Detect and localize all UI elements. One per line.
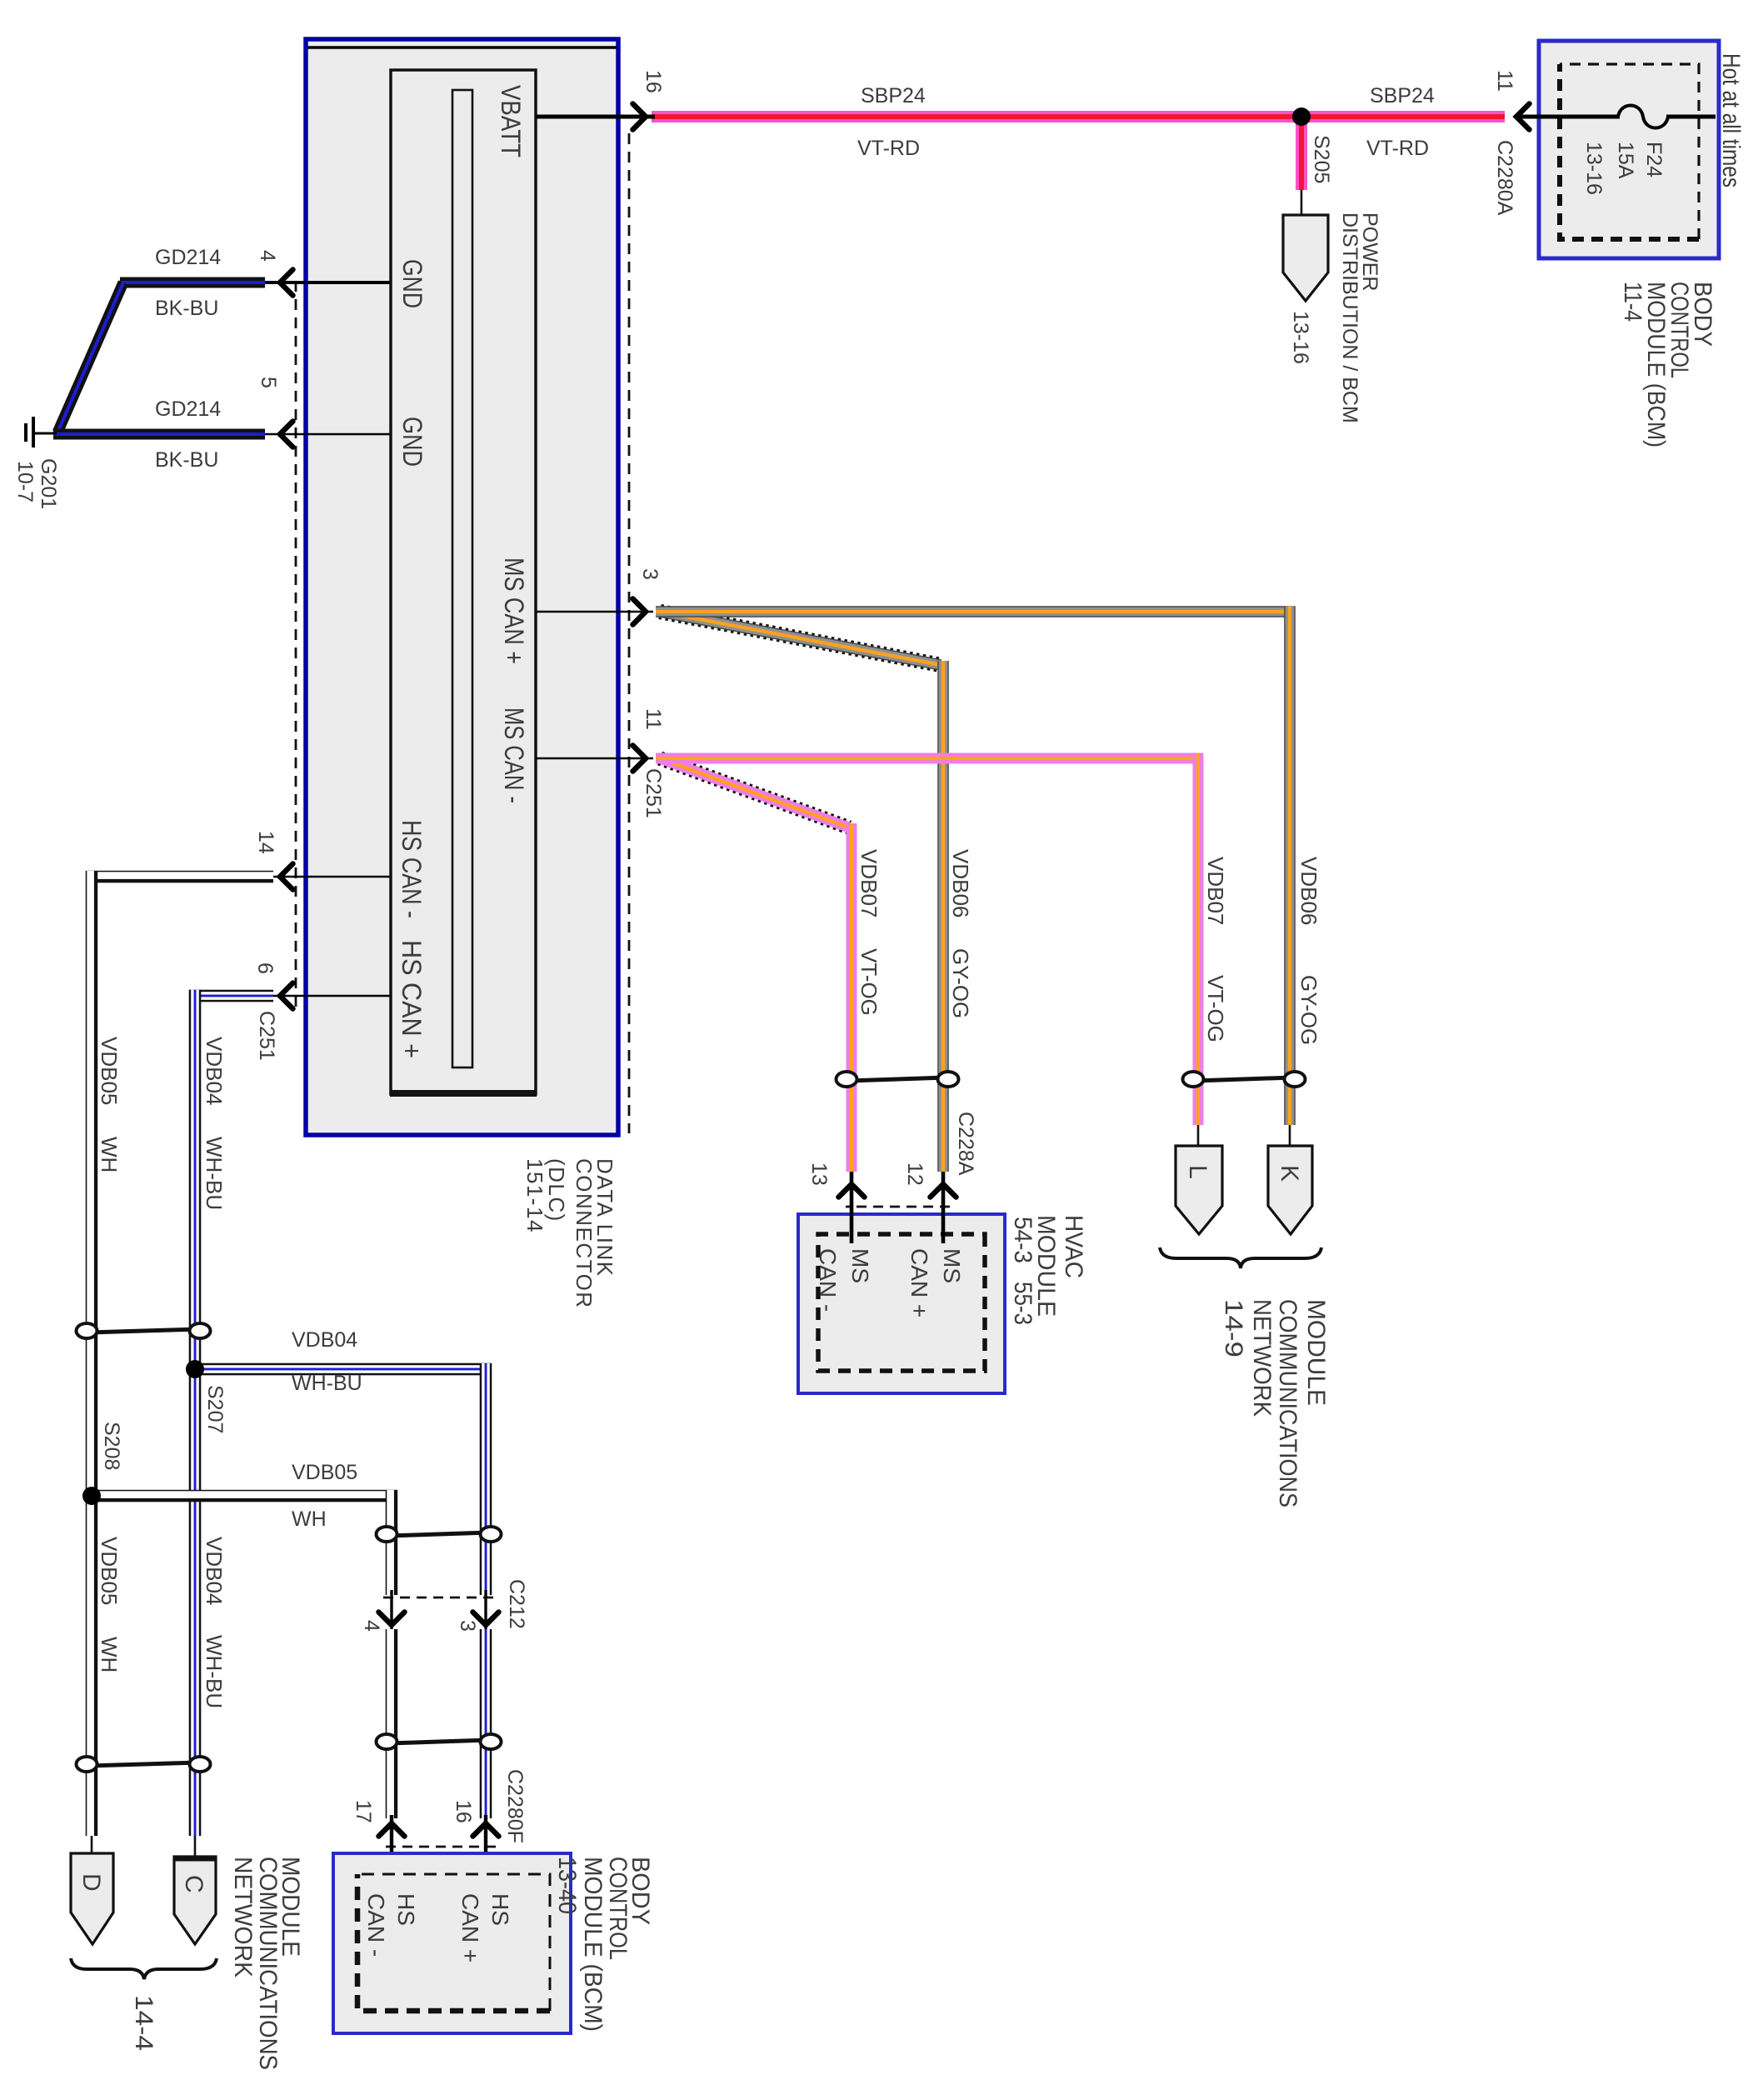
svg-text:13-16: 13-16	[1289, 311, 1312, 364]
svg-text:VBATT: VBATT	[496, 85, 526, 157]
svg-text:VDB04: VDB04	[202, 1537, 227, 1605]
svg-text:151-14: 151-14	[522, 1158, 547, 1233]
svg-text:DISTRIBUTION / BCM: DISTRIBUTION / BCM	[1338, 212, 1361, 423]
pin HS CAN + stub wire	[273, 995, 390, 997]
svg-text:13: 13	[807, 1162, 831, 1186]
svg-text:6: 6	[253, 962, 277, 974]
svg-text:C: C	[180, 1875, 207, 1893]
svg-text:16: 16	[452, 1800, 475, 1823]
svg-text:CONTROL: CONTROL	[604, 1857, 632, 1960]
svg-text:WH: WH	[292, 1507, 327, 1531]
module box: HVAC MODULE 54-3 55-3	[798, 1214, 1005, 1393]
svg-text:11-4: 11-4	[1619, 282, 1646, 322]
connector L off-page	[1197, 1125, 1200, 1147]
svg-text:MODULE: MODULE	[1302, 1299, 1330, 1406]
svg-text:55-3: 55-3	[1009, 1282, 1036, 1325]
svg-text:GD214: GD214	[155, 397, 221, 421]
svg-text:S208: S208	[100, 1422, 123, 1470]
pin 14 arrow at DLC	[280, 864, 293, 890]
twisted pair symbol on HVAC drop pair	[848, 1077, 946, 1081]
svg-text:17: 17	[352, 1800, 375, 1823]
svg-text:MS CAN +: MS CAN +	[499, 557, 529, 664]
svg-text:HVAC: HVAC	[1060, 1215, 1087, 1278]
svg-text:C251: C251	[255, 1011, 278, 1061]
wire: VDB05 WH from C212 to C2280F pin 17	[386, 1629, 398, 1818]
pin 11 arrow at DLC	[633, 746, 647, 772]
svg-text:GD214: GD214	[155, 246, 221, 269]
wire: VDB07 VT-OG horizontal run to HVAC pin 13	[847, 823, 857, 1172]
svg-text:VDB05: VDB05	[97, 1537, 122, 1605]
off-page connector: POWER DISTRIBUTION / BCM 13-16	[1283, 215, 1328, 301]
svg-text:NETWORK: NETWORK	[229, 1857, 257, 1977]
svg-text:SBP24: SBP24	[861, 84, 926, 107]
DLC connector body rectangle	[391, 70, 536, 1094]
svg-text:C228A: C228A	[954, 1112, 977, 1176]
svg-text:CAN +: CAN +	[457, 1893, 483, 1962]
svg-text:GND: GND	[397, 417, 427, 467]
svg-text:VDB05: VDB05	[292, 1461, 357, 1484]
svg-text:GND: GND	[397, 259, 427, 308]
svg-text:NETWORK: NETWORK	[1248, 1299, 1276, 1417]
pin 3 arrow at DLC	[633, 599, 647, 625]
svg-text:K: K	[1276, 1165, 1303, 1182]
dashed connector face line at DLC bottom side	[295, 281, 297, 1012]
svg-text:HS CAN +: HS CAN +	[397, 940, 427, 1058]
svg-text:15A: 15A	[1614, 142, 1637, 179]
svg-text:14-4: 14-4	[130, 1995, 157, 2051]
svg-text:54-3: 54-3	[1009, 1217, 1036, 1263]
node S205 splice on SBP24 wire	[1292, 107, 1311, 126]
svg-text:COMMUNICATIONS: COMMUNICATIONS	[254, 1857, 282, 2070]
wire: VDB06 GY-OG diagonal from pin 3 to HVAC branch	[660, 612, 941, 665]
pin 4 arrow at DLC	[280, 270, 293, 296]
svg-text:WH-BU: WH-BU	[202, 1635, 227, 1708]
in-line connector C212	[382, 1597, 493, 1599]
svg-text:WH: WH	[97, 1637, 122, 1672]
twisted pair symbol between C212 and C2280F	[388, 1740, 489, 1743]
connector K off-page	[1289, 1125, 1291, 1147]
wire: VDB07 VT-OG from pin 11 up and right to connector L	[656, 753, 1198, 764]
svg-text:F24: F24	[1642, 142, 1666, 177]
svg-text:GY-OG: GY-OG	[1296, 975, 1321, 1045]
svg-text:G201: G201	[37, 458, 60, 509]
fuse F24 15A inside BCM	[1666, 115, 1716, 119]
twisted pair symbol on HS CAN pair before splices	[88, 1329, 198, 1332]
module box: DATA LINK CONNECTOR (DLC) 151-14	[306, 39, 618, 1135]
dashed internal boundary of BCM 13-40	[357, 1874, 550, 2011]
twisted pair symbol on HS CAN pair near connectors D and C	[88, 1762, 198, 1766]
pin MS CAN + stub wire	[536, 611, 653, 612]
svg-text:WH-BU: WH-BU	[292, 1372, 362, 1395]
svg-text:C251: C251	[642, 768, 665, 818]
node S207 splice on VDB04	[186, 1360, 204, 1378]
ground G201	[35, 432, 57, 435]
wire: SBP24 VT-RD branch from S205 to power distribution arrow	[1296, 122, 1307, 190]
svg-text:HS: HS	[487, 1893, 513, 1926]
svg-text:C2280A: C2280A	[1493, 140, 1516, 216]
pin 16 arrow at DLC	[633, 104, 647, 130]
svg-text:11: 11	[1493, 70, 1516, 92]
connector D off-page	[91, 1836, 93, 1857]
svg-text:BK-BU: BK-BU	[155, 448, 218, 472]
dashed internal boundary of HVAC module	[818, 1234, 985, 1371]
wire: GD214 BK-BU from DLC pin 5 to ground	[53, 429, 265, 440]
wire: VDB06 GY-OG horizontal run to HVAC pin 12	[937, 661, 949, 1172]
svg-text:5: 5	[257, 377, 280, 388]
dashed connector face line at HVAC C228A	[846, 1206, 950, 1208]
svg-text:4: 4	[360, 1620, 383, 1632]
svg-text:VT-OG: VT-OG	[857, 948, 881, 1016]
pin MS CAN - stub wire	[536, 757, 653, 759]
svg-text:VDB05: VDB05	[97, 1037, 122, 1105]
svg-text:14-9: 14-9	[1220, 1299, 1247, 1357]
wire: VDB05 WH from DLC pin 14 down and right to connector D	[86, 871, 273, 883]
svg-text:MS CAN -: MS CAN -	[499, 707, 529, 803]
svg-text:CONNECTOR: CONNECTOR	[572, 1158, 597, 1309]
svg-text:D: D	[77, 1873, 105, 1892]
pin 13 stub at HVAC	[850, 1172, 854, 1243]
pin VBATT stub wire	[536, 115, 655, 119]
svg-text:HS: HS	[393, 1893, 419, 1926]
svg-text:CAN +: CAN +	[906, 1248, 932, 1317]
pin 12 stub at HVAC	[941, 1172, 946, 1243]
DLC connector key slot	[452, 90, 472, 1067]
svg-text:MS: MS	[847, 1248, 873, 1283]
module box: BODY CONTROL MODULE (BCM) 11-4	[1539, 41, 1719, 258]
svg-text:13-40: 13-40	[553, 1857, 581, 1914]
node S208 splice on VDB05	[82, 1487, 101, 1505]
dashed internal boundary of BCM	[1560, 64, 1699, 239]
wire: VDB06 GY-OG from pin 3 up and right to connector K	[656, 606, 1290, 617]
svg-text:VDB06: VDB06	[1296, 857, 1321, 925]
pin 6 arrow at DLC	[280, 983, 293, 1009]
svg-text:VDB07: VDB07	[1203, 857, 1228, 925]
pin 13 arrow at HVAC	[839, 1184, 865, 1197]
svg-text:C2280F: C2280F	[503, 1769, 527, 1843]
connector C off-page	[194, 1836, 197, 1858]
wire: VDB04 WH-BU from DLC pin 6 down and right to connector C	[189, 990, 273, 1002]
svg-text:L: L	[1184, 1165, 1211, 1179]
svg-text:CAN -: CAN -	[815, 1248, 841, 1312]
in-line connector C2280F at BCM	[384, 1846, 496, 1848]
pin HS CAN - stub wire	[273, 876, 390, 878]
svg-text:MS: MS	[939, 1248, 965, 1283]
pin 11 arrow at BCM connector C2280A	[1516, 104, 1530, 130]
svg-text:VDB06: VDB06	[948, 849, 973, 917]
svg-text:VDB04: VDB04	[292, 1328, 357, 1352]
twisted pair symbol on branch pair before C212	[388, 1532, 489, 1536]
wire: VDB07 VT-OG diagonal from pin 11 to HVAC branch	[660, 758, 849, 827]
svg-text:MODULE (BCM): MODULE (BCM)	[579, 1857, 607, 2032]
wire: GD214 BK-BU from DLC pin 4 to ground	[120, 277, 265, 288]
wire: VDB05 WH branch from S208 up to C212 pin 4	[92, 1490, 397, 1502]
svg-text:13-16: 13-16	[1582, 142, 1606, 195]
pin 5 arrow at DLC	[280, 422, 293, 447]
svg-text:C212: C212	[505, 1579, 528, 1629]
svg-text:COMMUNICATIONS: COMMUNICATIONS	[1274, 1299, 1301, 1507]
svg-text:SBP24: SBP24	[1370, 84, 1435, 107]
svg-text:CAN -: CAN -	[363, 1893, 389, 1957]
svg-text:(DLC): (DLC)	[544, 1158, 569, 1222]
svg-text:WH-BU: WH-BU	[202, 1137, 227, 1210]
svg-text:S207: S207	[203, 1385, 227, 1433]
module box: BODY CONTROL MODULE (BCM) 13-40	[333, 1853, 571, 2033]
svg-text:4: 4	[256, 250, 279, 262]
svg-text:VDB07: VDB07	[857, 849, 881, 917]
svg-text:11: 11	[642, 708, 665, 730]
svg-text:Hot at all times: Hot at all times	[1717, 53, 1745, 187]
wire: VDB04 WH-BU branch from S207 up to C212 pin 3	[195, 1363, 491, 1376]
pin GND 5 stub wire	[265, 433, 390, 435]
brace for module communications network 14-9	[1160, 1247, 1321, 1268]
svg-text:VT-OG: VT-OG	[1203, 975, 1228, 1042]
svg-text:HS CAN -: HS CAN -	[397, 820, 427, 918]
svg-text:S205: S205	[1310, 135, 1333, 183]
svg-text:POWER: POWER	[1358, 212, 1381, 291]
svg-text:VT-RD: VT-RD	[857, 137, 920, 160]
brace for module communications network 14-4	[71, 1958, 217, 1979]
svg-text:10-7: 10-7	[13, 461, 37, 502]
svg-text:GY-OG: GY-OG	[948, 948, 973, 1018]
svg-text:BK-BU: BK-BU	[155, 297, 218, 320]
svg-text:12: 12	[903, 1162, 926, 1186]
wire: VDB04 WH-BU from C212 to C2280F pin 16	[480, 1629, 492, 1818]
svg-text:VDB04: VDB04	[202, 1037, 227, 1105]
svg-text:WH: WH	[97, 1137, 122, 1172]
pin GND 4 stub wire	[265, 281, 390, 284]
svg-text:3: 3	[456, 1620, 479, 1632]
svg-text:3: 3	[638, 568, 662, 580]
svg-text:14: 14	[254, 831, 277, 854]
dashed connector face line at DLC top side	[628, 133, 631, 1133]
svg-text:16: 16	[642, 70, 665, 93]
svg-text:VT-RD: VT-RD	[1366, 137, 1429, 160]
pin 12 arrow at HVAC	[931, 1184, 956, 1197]
wire: SBP24 VT-RD power feed from BCM fuse F24 down to DLC pin 16 (VBATT)	[652, 111, 1505, 122]
twisted pair symbol on K/L pair	[1195, 1077, 1293, 1081]
